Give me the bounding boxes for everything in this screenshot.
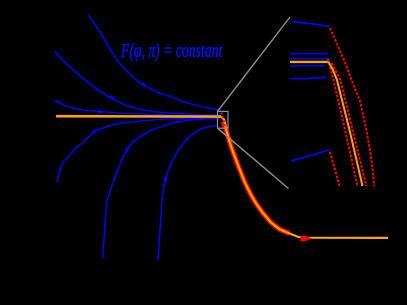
- inset red dotted line B (right of orange): [332, 63, 366, 186]
- trajectory A1 (from top): [88, 15, 221, 111]
- inset blue line B1: [292, 22, 330, 27]
- inset red dotted stub from Be: [330, 152, 340, 187]
- inset orange band (attractor continuation, steep): [329, 62, 363, 186]
- inset blue line Bc: [290, 65, 325, 67]
- trajectory A3: [55, 100, 218, 116]
- gray connector line top: [218, 17, 291, 111]
- label F(phi,pi)=constant: [121, 40, 222, 63]
- trajectory A2: [55, 52, 221, 116]
- inset blue line Ba: [290, 53, 328, 55]
- inset orange attractor line: [290, 61, 329, 63]
- arrowhead on C1: [92, 129, 99, 134]
- trajectory C1 (below attractor, from lower left): [57, 118, 218, 182]
- attractor orange core of descending curve + bottom horizontal: [221, 117, 388, 238]
- inset blue line Bd: [291, 77, 328, 78]
- attractor descending thick curve red outline: [223, 122, 289, 234]
- arrowhead on C2: [124, 145, 129, 152]
- red dashes near P above attractor knee: [222, 113, 226, 129]
- arrowhead on A3: [98, 109, 105, 114]
- trajectory C3: [158, 126, 218, 261]
- attractor orange horizontal line (slow-roll): [56, 115, 221, 118]
- arrowhead on A1: [141, 82, 148, 87]
- inset blue line Bb: [290, 58, 330, 60]
- arrowhead on C3: [163, 175, 167, 182]
- inset blue line Be (diagonal): [291, 150, 329, 161]
- inset red dotted line C (rightmost, from B1): [330, 28, 374, 186]
- red double arrowhead on bottom attractor line: [300, 236, 305, 241]
- trajectory C2: [103, 119, 219, 258]
- inset red dotted line A (left of orange): [328, 59, 358, 186]
- zoom-box gray rectangle: [218, 111, 229, 128]
- arrowhead on A2: [109, 95, 116, 100]
- gray connector line bottom: [218, 128, 289, 188]
